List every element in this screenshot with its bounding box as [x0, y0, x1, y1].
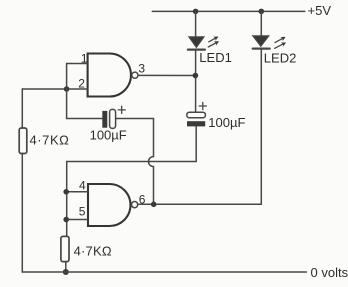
junction: LED1 anode to +5V rail: [193, 9, 199, 15]
capacitor C2 negative plate (filled): [187, 121, 205, 126]
wire: pin 3 output to LED1 node: [138, 74, 195, 76]
capacitor C2 positive plate (hollow): [187, 112, 206, 118]
LED2 light-emission arrows: [275, 38, 285, 49]
junction: LED2 anode to +5V rail: [259, 9, 265, 15]
junction: pins 1-2 tied node: [64, 86, 70, 92]
wire: C2 bottom plate down then to pins4-5 branch: [67, 126, 197, 161]
wire: pin 4 stub: [67, 191, 88, 193]
NAND gate U1a body: [88, 54, 131, 97]
wire: node pins1-2 down to capacitor C1 left plate: [67, 89, 102, 119]
capacitor C1 plus sign: [118, 106, 125, 113]
svg-text:LED1: LED1: [199, 50, 232, 65]
resistor R1 body: [19, 128, 27, 154]
junction: pin 5 node: [63, 217, 69, 223]
wire: pin 6 output to LED2 cathode: [138, 203, 262, 205]
capacitor C1 positive plate (hollow): [110, 109, 116, 128]
wire: riser from C1 down to pin6 node (hops over crossing wire): [149, 119, 154, 205]
junction: R2 to 0V rail: [63, 269, 69, 275]
svg-text:+5V: +5V: [308, 3, 332, 18]
resistor R2 body: [61, 236, 69, 261]
wire: LED2 anode from +5V rail: [260, 11, 262, 36]
svg-text:2: 2: [78, 76, 85, 90]
svg-text:4·7KΩ: 4·7KΩ: [30, 133, 70, 148]
wire: left rail R1 bottom down to 0V rail: [21, 154, 23, 273]
svg-text:100µF: 100µF: [208, 115, 245, 130]
capacitor C2 plus sign: [199, 102, 206, 109]
wire: pin 1 stub: [67, 64, 88, 90]
LED1 diode symbol: [188, 37, 205, 50]
junction: pin 6 / C1 / LED2 node: [151, 202, 157, 208]
svg-text:100µF: 100µF: [90, 127, 127, 142]
NAND gate U1b output inversion bubble: [132, 202, 138, 208]
wire: LED1 cathode down to capacitor C2 top: [195, 50, 197, 113]
wire: LED2 cathode down to gate U1b output net: [260, 49, 262, 205]
svg-text:4·7KΩ: 4·7KΩ: [74, 243, 112, 258]
svg-text:4: 4: [79, 179, 86, 193]
0 volts ground rail: [22, 271, 306, 273]
wire: R2 bottom to 0V rail: [65, 262, 67, 272]
svg-text:LED2: LED2: [264, 51, 297, 66]
junction: pin 4 node: [63, 189, 69, 195]
NAND gate U1b body: [88, 184, 131, 226]
wire: pin 5 stub: [67, 219, 88, 221]
LED2 diode symbol: [253, 36, 270, 49]
junction: pin3 / LED1 cathode / C2 node: [193, 73, 199, 79]
wire: LED1 anode from +5V rail: [195, 11, 197, 37]
LED1 light-emission arrows: [208, 37, 217, 47]
wire: pin 2 input from resistor R1: [22, 88, 87, 90]
svg-text:0 volts: 0 volts: [311, 265, 348, 280]
NAND gate U1a output inversion bubble: [132, 72, 138, 78]
svg-text:5: 5: [79, 205, 86, 219]
wire: pins 4-5 vertical branch down to resistor R2: [66, 162, 68, 237]
wire: C1 right plate to vertical riser: [116, 118, 154, 120]
capacitor C1 negative plate (filled): [102, 111, 107, 128]
+5V supply rail: [152, 10, 304, 12]
svg-text:3: 3: [138, 61, 145, 75]
wire: left rail R1 top to pin2 wire: [21, 89, 23, 128]
